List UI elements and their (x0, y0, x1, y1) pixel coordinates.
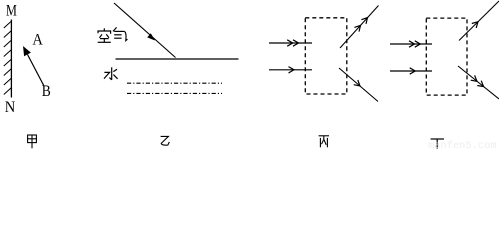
top incoming ray (wire) (390, 43, 432, 45)
arrowhead on incident ray (147, 33, 155, 40)
figure yi: air/water refraction (114, 3, 239, 93)
figure bing: black box with diverging exit rays (269, 6, 379, 102)
caption bing (Chinese char) (319, 136, 329, 148)
mirror line MN (10, 20, 12, 98)
single chevron on bottom incoming ray (289, 67, 295, 73)
single chevron on lower exit ray (354, 80, 360, 86)
double chevrons on lower exit ray (471, 75, 477, 81)
caption ding (Chinese char) (431, 139, 444, 149)
caption jia (Chinese char) (28, 135, 37, 148)
double chevrons on upper exit ray (354, 25, 360, 31)
svg-text:N: N (5, 99, 16, 116)
dashed box (305, 18, 347, 94)
water dash-dot line 1 (127, 82, 222, 84)
lower exit ray (wire) (339, 68, 378, 102)
single chevron on bottom incoming ray (410, 68, 416, 74)
figure ding: black box with crossing exit rays (390, 1, 499, 99)
single chevron on upper exit ray (472, 22, 478, 28)
bottom incoming ray (wire) (390, 70, 432, 72)
svg-text:A: A (32, 32, 43, 49)
water surface line (116, 58, 239, 60)
double chevrons on top incoming ray (409, 41, 415, 47)
figure jia: plane mirror MN with incident ray B->A (4, 2, 51, 116)
double chevrons on top incoming ray (287, 40, 293, 46)
top incoming ray (wire) (269, 42, 312, 44)
lower exit ray (wire) (458, 66, 499, 99)
upper exit ray (wire) (459, 1, 499, 41)
ray B to A (wire) (28, 55, 45, 87)
upper exit ray (wire) (340, 6, 379, 49)
svg-text:M: M (6, 2, 17, 19)
caption yi (Chinese char) (161, 136, 170, 145)
dashed box (426, 18, 467, 95)
svg-text:B: B (42, 83, 51, 100)
water dash-dot line 2 (127, 92, 222, 94)
svg-text:manfen5.com: manfen5.com (428, 140, 497, 149)
arrowhead at A end (23, 46, 31, 56)
qi char (113, 27, 117, 31)
kong char (103, 28, 105, 31)
mirror hatching (4, 22, 11, 95)
bottom incoming ray (wire) (269, 69, 312, 71)
incident ray in air (wire) (114, 3, 176, 58)
label shui (water) (104, 67, 118, 80)
label kongqi (air) (98, 27, 128, 42)
